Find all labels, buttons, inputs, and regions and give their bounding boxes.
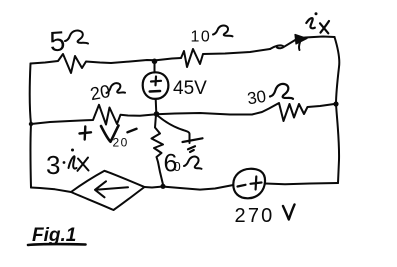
svg-text:45V: 45V [173, 78, 207, 99]
ground wire curve [158, 116, 190, 143]
arrow tail stroke [299, 42, 300, 50]
wire middle horizontal right + resistor R4 30ohm [157, 103, 337, 121]
source V1 45V circle [143, 72, 169, 99]
arrowhead current ix [295, 35, 307, 45]
wire right vertical [335, 37, 340, 183]
svg-text:5: 5 [49, 25, 67, 57]
node junction dot bottom [160, 184, 165, 189]
arrow inside diamond [95, 181, 128, 197]
minus sign inside 45V [150, 90, 160, 93]
svg-text:270: 270 [235, 205, 275, 227]
svg-text:3: 3 [46, 150, 60, 180]
node junction dot right [333, 101, 338, 106]
resistor R2 10ohm body [181, 49, 270, 67]
label ohm for 10 [213, 25, 233, 36]
wire top with resistor R1 body [31, 54, 182, 73]
underline of Fig.1 [28, 244, 86, 245]
wire middle horizontal left + resistor R3 20ohm [31, 105, 157, 125]
label plus of V20 [80, 127, 92, 140]
wire 45V circle bottom to node [155, 99, 158, 114]
source V1 45V branch top [154, 61, 156, 73]
wire node to diamond [145, 187, 164, 188]
dependent source diamond 3ix [71, 171, 145, 210]
wire diamond to bottom-left corner [31, 188, 71, 193]
label minus of V20 [128, 129, 137, 133]
ground symbol strokes [183, 138, 203, 152]
label ix top right [306, 18, 315, 28]
wire top right with hook [270, 37, 335, 50]
svg-text:20: 20 [113, 136, 129, 150]
label ohm for 60 [184, 156, 202, 168]
svg-text:10: 10 [191, 29, 212, 46]
node junction dot left [29, 122, 33, 126]
label ohm for 5 [65, 31, 88, 44]
label V of V20 [101, 126, 119, 142]
source V2 270V circle [233, 169, 265, 199]
minus sign inside 270V [238, 185, 246, 187]
wire left vertical [30, 64, 31, 188]
label ohm for 20 [106, 82, 125, 94]
plus sign inside 270V [251, 177, 262, 190]
node junction dot top [152, 59, 158, 65]
wire bottom middle (circle to node) [165, 185, 233, 190]
wire bottom right [266, 183, 339, 184]
node junction dot middle [154, 111, 160, 117]
resistor R5 60ohm vertical [152, 115, 164, 185]
svg-text:30: 30 [246, 87, 267, 108]
label ohm for 30 [270, 84, 293, 99]
svg-text:0: 0 [174, 159, 181, 174]
plus sign inside 45V [151, 77, 161, 86]
